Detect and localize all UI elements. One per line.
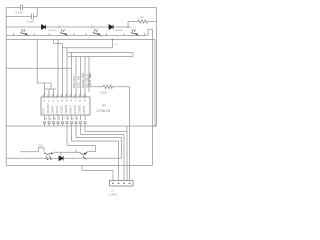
junction dot diode riser (127, 26, 128, 27)
pin bubble 8 (75, 122, 77, 124)
IC U1 bottom pin stubs (45, 115, 86, 120)
pin bubble 4 (57, 122, 59, 124)
tick Q2 left lead (48, 33, 50, 35)
label Q3 (91, 26, 94, 28)
wire mid horizontal B (67, 52, 133, 54)
pin bubble 6 (66, 122, 68, 124)
wire inner loop return (68, 56, 133, 58)
wire wrap 5 (67, 124, 96, 146)
pin bubble 9 (79, 122, 81, 124)
svg-text:MELIN: MELIN (56, 106, 59, 114)
pin bubble 5 (61, 122, 63, 124)
svg-text:TEMPO: TEMPO (65, 105, 68, 114)
svg-text:MODE SE1: MODE SE1 (81, 72, 85, 88)
wire top rail (6, 7, 156, 9)
wire pin drops to y126 (45, 124, 63, 126)
svg-text:1N4148: 1N4148 (115, 30, 123, 32)
wire diode row (6, 26, 128, 28)
wire connector pin1 drop (112, 170, 114, 180)
svg-text:7: 7 (63, 117, 65, 121)
switch S1 bump (39, 148, 45, 152)
wire IC pin4 riser (66, 48, 68, 97)
wire D3 riser (60, 152, 62, 156)
svg-text:5: 5 (77, 117, 79, 121)
svg-text:SW +5V1: SW +5V1 (72, 75, 76, 88)
wire connector feed jog (82, 166, 113, 171)
wire right bus 3 (154, 40, 156, 127)
wire second rail (6, 16, 37, 18)
svg-text:OUTPT: OUTPT (83, 105, 86, 114)
tick Q4 right lead (144, 33, 146, 35)
wire bottom rail y158 (6, 157, 121, 159)
svg-text:1K: 1K (140, 15, 144, 19)
wire C2 riser (36, 8, 38, 17)
wire transistor row (6, 35, 148, 37)
tick Q2 right lead (73, 33, 75, 35)
svg-text:6: 6 (72, 117, 74, 121)
tick Q6 base lead (75, 149, 77, 152)
wire left vertical bus (5, 8, 7, 166)
pin bubble 10 (84, 122, 86, 124)
svg-text:9: 9 (45, 117, 47, 121)
transistor Q5 (44, 152, 53, 159)
svg-text:4: 4 (68, 117, 70, 121)
svg-text:8: 8 (54, 117, 56, 121)
wire wrap 4 (72, 124, 119, 181)
svg-text:U1: U1 (102, 104, 106, 108)
transistor Q2 (60, 29, 68, 35)
tick Q3 right lead (106, 33, 108, 35)
pin bubble 1 (43, 122, 45, 124)
svg-text:MODE1: MODE1 (61, 104, 64, 113)
tick Q3 left lead (85, 33, 87, 35)
IC U1 body (41, 97, 90, 115)
junction dot y126 right (154, 125, 156, 127)
junction dot riser top (112, 39, 113, 40)
wire IC pin3 riser (62, 44, 64, 98)
wire transistor row right wrap (148, 29, 152, 35)
svg-text:OSCIN: OSCIN (52, 106, 55, 114)
wire R2 drop (129, 87, 131, 181)
tick Q4 left lead (123, 33, 125, 35)
wire long bottom rail y126 (6, 125, 156, 127)
svg-text:CON4: CON4 (109, 193, 118, 197)
svg-text:5: 5 (66, 98, 68, 102)
transistor Q3 (93, 29, 101, 35)
wire wrap 3 (76, 124, 122, 159)
svg-text:ENVLP: ENVLP (70, 105, 73, 113)
wire IC pin9 riser (88, 57, 90, 93)
svg-text:OUT 1MP: OUT 1MP (88, 73, 92, 86)
wire mid horizontal A (63, 47, 113, 49)
pin bubble 3 (52, 122, 54, 124)
svg-text:0: 0 (43, 98, 45, 102)
svg-text:OSC 1IN: OSC 1IN (76, 76, 80, 88)
diode D3 (59, 156, 63, 161)
resistor R2 wire (90, 86, 130, 88)
svg-text:SW: SW (39, 144, 44, 148)
wire right vertical bus (156, 8, 158, 127)
capacitor C2 (32, 14, 34, 19)
svg-text:4: 4 (61, 98, 63, 102)
connector J1 pin marks (112, 182, 131, 184)
svg-text:UT94C03: UT94C03 (97, 109, 111, 113)
wire pin1 jog (37, 83, 56, 97)
svg-text:6: 6 (70, 98, 72, 102)
wire IC pin8 riser (84, 57, 86, 98)
wire lower row (6, 39, 155, 41)
wire right bus 2 (151, 29, 153, 165)
label riser speck (115, 44, 117, 46)
svg-text:VDD: VDD (43, 108, 46, 113)
wire wrap 1 (85, 124, 127, 181)
resistor R1 (138, 20, 149, 23)
svg-text:OSCOUT: OSCOUT (47, 103, 50, 114)
tick Q1 left lead (13, 33, 15, 35)
wire bottom section line A (20, 151, 96, 154)
diode D1 (42, 25, 46, 30)
transistor Q6 (80, 152, 88, 159)
pin bubble 2 (48, 122, 50, 124)
svg-text:1N4148: 1N4148 (48, 30, 56, 32)
wire riser x112.5 (112, 40, 114, 48)
wire pin1 feed vertical (36, 40, 38, 84)
svg-text:100K: 100K (100, 91, 107, 95)
wire wrap 2 (81, 124, 125, 181)
svg-text:2: 2 (52, 98, 54, 102)
svg-text:RHYTH: RHYTH (74, 105, 77, 114)
tick bottom link (95, 145, 97, 151)
wire IC pin5 riser (71, 53, 73, 98)
capacitor C1 (21, 5, 23, 10)
IC U1 top pin stubs (45, 93, 86, 98)
diode D2 (109, 25, 113, 30)
svg-text:7: 7 (75, 98, 77, 102)
svg-text:3: 3 (59, 117, 61, 121)
pin bubble 7 (70, 122, 72, 124)
label Q4 (129, 26, 132, 28)
transistor Q1 (20, 29, 28, 35)
wire IC pin2 riser (57, 40, 59, 98)
resistor R2 (103, 85, 113, 88)
wire bottom rail y165.5 (6, 165, 152, 167)
svg-text:3: 3 (57, 98, 59, 102)
svg-text:2: 2 (50, 117, 52, 121)
svg-text:0.1µF: 0.1µF (16, 11, 24, 15)
svg-text:1: 1 (48, 98, 50, 102)
wire mid-left rail (6, 67, 71, 69)
tick Q1 right lead (33, 33, 35, 35)
label Q6 speck (92, 148, 93, 150)
wire IC pin7 riser (80, 57, 82, 98)
wire IC pin6 riser (75, 57, 77, 98)
transistor Q4 (131, 29, 139, 35)
connector J1 body (110, 181, 134, 187)
svg-text:0.1µF: 0.1µF (27, 20, 35, 24)
wire resistor R1 line (128, 21, 157, 23)
wire loop drop x133 (132, 53, 134, 57)
wire riser to resistor line (127, 22, 129, 28)
label Q2 (58, 26, 61, 28)
wire staircase step 1 (54, 40, 63, 44)
svg-text:9: 9 (84, 98, 86, 102)
svg-text:CHORD: CHORD (79, 104, 82, 113)
svg-text:8: 8 (79, 98, 81, 102)
